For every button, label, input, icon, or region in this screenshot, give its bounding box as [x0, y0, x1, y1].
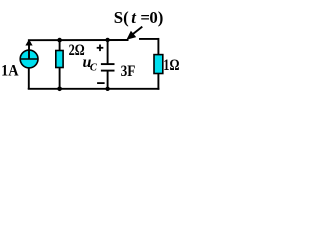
label + polarity of uC: [97, 45, 104, 52]
svg-text:3F: 3F: [121, 63, 136, 80]
wire bottom: [28, 88, 160, 90]
svg-text:1A: 1A: [1, 63, 19, 80]
wire top-right segment (switch right contact to top-right corner): [139, 38, 158, 40]
wire right branch upper: [157, 38, 159, 55]
wire 2ohm branch lower: [59, 68, 61, 89]
wire top-left segment (corner to switch left contact): [28, 39, 129, 41]
node dot top of 2ohm branch: [57, 38, 62, 43]
label - polarity of uC: [97, 82, 105, 84]
wire capacitor branch upper: [107, 40, 109, 64]
svg-text:S(t=0): S(t=0): [114, 8, 164, 27]
current source I=1A (circle with horizontal bar and up arrow): [20, 39, 39, 68]
wire left branch lower (source bottom to bottom wire): [28, 68, 30, 89]
capacitor C 3F bottom plate: [101, 70, 115, 72]
svg-text:C: C: [90, 63, 98, 74]
resistor R1 2ohm: [56, 51, 63, 68]
node dot bottom of capacitor branch: [105, 87, 109, 91]
capacitor C 3F top plate: [101, 63, 115, 65]
node dot bottom of 2ohm branch: [57, 87, 62, 92]
wire right branch lower: [157, 73, 159, 89]
wire 2ohm branch upper: [59, 40, 61, 51]
svg-text:1Ω: 1Ω: [163, 56, 179, 74]
resistor R2 1ohm: [154, 55, 163, 74]
wire capacitor branch lower: [107, 71, 109, 89]
node dot top of capacitor branch: [105, 38, 109, 42]
switch S closing arrow: [126, 27, 142, 40]
